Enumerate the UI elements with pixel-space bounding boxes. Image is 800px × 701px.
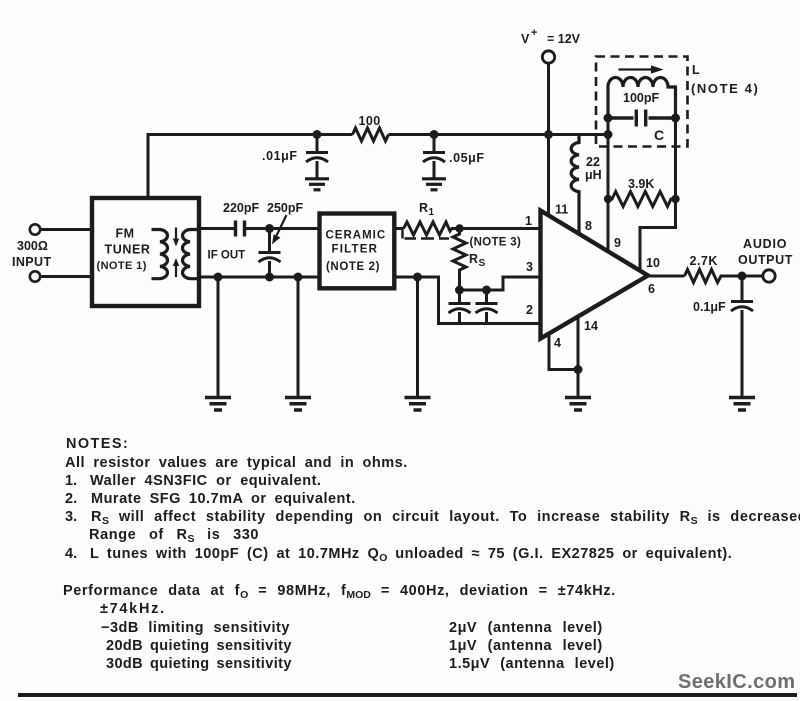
wire input top to FM tuner [41,228,93,231]
inductor 22uH [571,135,579,234]
svg-text:8: 8 [585,219,592,233]
dashed box L (NOTE 4) [596,57,688,147]
capacitor 220pF [236,221,245,237]
svg-text:(NOTE 3): (NOTE 3) [470,237,522,249]
ground below op-amp [565,398,591,411]
wire IF OUT top [199,227,234,230]
ground below .01uF [305,179,329,190]
resistor RS [453,229,466,291]
note 1 number [65,473,77,489]
junction output [738,272,747,281]
wire op-amp output [648,275,685,278]
FM tuner box U1 [92,198,199,306]
terminal input bottom [30,271,40,281]
svg-text:TUNER: TUNER [105,243,151,257]
wire 220pF to 250pF node [246,227,321,230]
note 2 body [91,491,356,507]
ground below .05uF [422,179,446,190]
svg-text:1: 1 [525,214,532,228]
svg-text:3.9K: 3.9K [628,177,654,191]
row -3dB value [449,620,603,636]
wire LC left node to rail [607,118,610,135]
bottom rule [18,693,797,697]
capacitor bypass A [449,290,471,324]
capacitor .05uF [423,135,445,179]
ground below 0.1uF [729,398,755,411]
junction 250pF bottom [265,273,274,282]
capacitor .01uF [306,135,328,179]
wire IF OUT bottom [199,276,321,279]
junction 250pF top [265,224,274,233]
junction node at .01uF [313,130,322,139]
wire RS bottom node [460,289,487,292]
terminal input top [30,224,40,234]
svg-text:CERAMIC: CERAMIC [326,230,387,242]
svg-text:(NOTE 4): (NOTE 4) [691,81,759,96]
svg-text:= 12V: = 12V [547,32,581,46]
ground B [285,398,311,411]
resistor R1 [404,222,461,235]
inductor L [608,78,676,119]
wire ceramic filter to R1 [393,227,404,230]
wire pin 1 [460,227,541,230]
terminal V+ [542,51,554,63]
row 30dB [106,656,292,672]
svg-text:V: V [521,32,530,46]
svg-text:1: 1 [429,207,435,218]
junction cap B top [482,286,491,295]
junction node at .05uF [430,130,439,139]
svg-text:220pF: 220pF [223,201,259,215]
junction ground left [413,273,422,282]
note 3 number [65,509,77,525]
junction ground A [214,273,223,282]
junction 3.9K right [671,195,679,203]
svg-text:AUDIO: AUDIO [743,237,787,251]
svg-text:R: R [469,252,478,266]
note 3 body [91,509,800,525]
svg-text:.05μF: .05μF [449,151,485,165]
ground A [205,398,231,411]
wire pin 14 to ground [577,316,580,398]
arrow of variable capacitor 250pF [272,215,287,245]
row 20dB [106,638,292,654]
notes heading [66,436,129,452]
svg-text:R: R [419,201,428,215]
wire pin 2 [393,277,541,324]
wire feedback to pin 10 [640,199,676,271]
capacitor 0.1uF [731,276,753,398]
performance line [63,583,616,599]
ground below pin2 wire [405,398,431,411]
svg-text:4: 4 [554,336,561,350]
wire V+ to op-amp pin 11 [547,64,550,217]
performance line 2 [100,601,166,617]
watermark SeekIC.com [678,671,795,694]
svg-text:FILTER: FILTER [332,244,379,256]
svg-text:250pF: 250pF [267,201,303,215]
dashed bracket around R1 [403,229,450,239]
transformer arrow down [173,228,179,247]
op-amp U2 [541,211,649,339]
svg-text:(NOTE 2): (NOTE 2) [326,261,380,273]
svg-text:100: 100 [359,114,381,128]
junction LC left [604,114,613,123]
row 30dB value [449,656,615,672]
wire pin 4 [549,334,578,370]
svg-text:+: + [531,27,537,39]
capacitor 250pF variable [259,229,281,278]
note 3b [89,527,259,543]
resistor 100 [353,128,389,141]
note 4 number [65,546,77,562]
arrow over inductor L [619,65,664,73]
resistor 2.7K [685,270,725,283]
wire input bottom to FM tuner [41,275,93,278]
terminal audio output [763,270,775,282]
capacitor C 100pF [608,110,676,127]
junction LC right [671,114,680,123]
note 2 number [65,491,77,507]
junction 3.9K left [604,195,612,203]
row -3dB [101,620,290,636]
svg-text:6: 6 [648,282,655,296]
junction ground B [294,273,303,282]
svg-text:IF OUT: IF OUT [208,250,246,262]
svg-text:3: 3 [526,260,533,274]
svg-text:L: L [692,63,700,77]
svg-text:INPUT: INPUT [12,255,52,269]
svg-text:.01μF: .01μF [262,149,298,163]
svg-text:10: 10 [646,256,660,270]
svg-text:FM: FM [116,227,135,241]
note 4 body [90,546,732,562]
svg-text:9: 9 [614,236,621,250]
wire 2.7K to output terminal [724,275,763,278]
transformer T1 primary coil [152,230,168,279]
svg-text:300Ω: 300Ω [17,239,48,253]
transformer arrow up [173,258,179,277]
wire FM tuner top to supply rail [148,135,353,199]
wire ground A stem [217,277,220,398]
resistor 3.9K [608,192,676,207]
svg-text:11: 11 [555,203,568,217]
wire ground B stem [297,277,300,398]
junction V+ at rail [544,130,553,139]
svg-text:14: 14 [584,319,598,333]
transformer T1 secondary coil [182,230,197,279]
svg-text:C: C [654,127,664,143]
svg-text:S: S [479,258,486,269]
svg-text:(NOTE 1): (NOTE 1) [97,260,147,272]
svg-text:2.7K: 2.7K [690,254,718,268]
wire to ground below ceramic filter [416,277,419,398]
junction RS bottom [455,286,464,295]
svg-text:100pF: 100pF [623,91,659,105]
svg-text:OUTPUT: OUTPUT [738,253,793,267]
junction rail right end [604,130,613,139]
capacitor bypass B [476,290,498,324]
svg-text:μH: μH [585,168,602,182]
svg-text:2: 2 [526,303,533,317]
row 20dB value [449,638,603,654]
junction pin4/14 [574,365,583,374]
note 1 body [90,473,321,489]
wire rail right of resistor 100 [389,133,609,136]
note line all resistor values [65,455,408,471]
wire rail to op-amp pin 9 [607,135,610,252]
svg-text:22: 22 [586,155,600,169]
wire pin 3 [487,277,541,290]
ceramic filter box U3 [320,214,395,289]
junction R1 right [455,224,463,232]
svg-text:0.1μF: 0.1μF [693,300,726,314]
wire LC right node down to 3.9K [674,118,677,199]
